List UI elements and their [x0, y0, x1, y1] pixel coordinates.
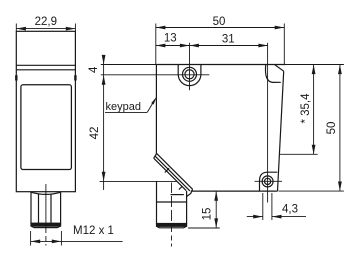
lens face band inner line 1 — [155, 156, 190, 191]
dimension 35,4 extension bottom — [280, 153, 318, 155]
front view left bottom chamfer — [154, 154, 157, 158]
dimension 4 arrow bottom (outside pointing up, shared with 42) — [102, 75, 106, 85]
front connector barrel seam — [157, 201, 187, 203]
side connector bottom cap — [31, 226, 61, 228]
svg-text:4,3: 4,3 — [282, 203, 298, 215]
dimension 35,4 arrow bottom — [312, 145, 316, 155]
dimension 50 top arrow left — [156, 26, 166, 30]
svg-text:4: 4 — [88, 66, 100, 73]
svg-text:15: 15 — [202, 208, 214, 221]
dimension M12x1 line and leader — [31, 240, 123, 242]
side view body outline — [16, 31, 75, 191]
side connector thread line right — [50, 194, 52, 224]
svg-text:13: 13 — [164, 33, 177, 45]
dimension 50 top arrow right — [275, 26, 285, 30]
svg-text:keypad: keypad — [106, 101, 141, 113]
dimension 4,3 line right segment — [272, 216, 306, 218]
front view left edge — [155, 65, 157, 155]
dimension 13 arrow left — [156, 44, 166, 48]
side connector centerline — [45, 184, 47, 246]
side connector barrel — [31, 192, 61, 223]
top-left hole vertical centerline — [189, 43, 191, 91]
dimension 15 arrow bottom — [214, 218, 218, 228]
svg-text:M12 x 1: M12 x 1 — [73, 225, 114, 237]
lens face band outer edge — [154, 158, 187, 191]
bottom-right hole inner circle — [265, 178, 271, 184]
side connector nut band — [31, 223, 61, 226]
dimension 35,4 extension top — [286, 64, 344, 66]
dimension 50 right arrow top — [338, 65, 342, 75]
dimension 4,3 arrow left — [253, 215, 263, 219]
dimension 50 right extension bottom — [279, 190, 344, 192]
side connector thread line left — [38, 194, 40, 224]
dimension 35,4 arrow top — [312, 65, 316, 75]
bottom-right hole horizontal centerline — [255, 180, 283, 182]
dimension 4,3 extension right — [271, 193, 273, 220]
side view cap seam line upper — [16, 64, 75, 66]
front view top-right inner contour — [265, 65, 280, 82]
svg-text:42: 42 — [89, 127, 101, 140]
dimension M12x1 arrow right — [52, 240, 62, 244]
side view cap seam line lower — [16, 69, 75, 71]
top-left hole boss — [178, 65, 201, 86]
dimension 4,3 arrow right — [272, 215, 282, 219]
keypad leader arrowhead — [151, 97, 157, 105]
dimension 15 line — [215, 191, 217, 228]
lens face band tick 2 — [179, 187, 182, 190]
dimension 22,9 arrow right — [66, 27, 76, 31]
dimension M12x1 arrow left — [31, 240, 41, 244]
dimension 22,9 extension left — [15, 24, 17, 32]
top-left hole inner circle — [185, 70, 194, 79]
front view top right chamfer — [275, 65, 284, 72]
dimension 31 line — [190, 45, 269, 47]
dimension 35,4 line — [313, 65, 315, 155]
top-left hole horizontal centerline and keypad line — [101, 74, 210, 76]
dimension M12x1 extension right — [60, 231, 62, 246]
dimension 31 arrow right — [258, 44, 268, 48]
lens face band tick 1 — [165, 168, 169, 172]
top-left hole outer circle — [183, 67, 197, 81]
front lower ledge line — [100, 180, 178, 182]
dimension 22,9 extension right — [74, 24, 76, 32]
dimension 50 top extension right — [283, 24, 285, 65]
dimension 4 arrow top (outside pointing down) — [102, 55, 106, 65]
keypad label underline — [105, 111, 147, 113]
lens face band end cap — [187, 189, 193, 196]
bottom-right hole boss — [260, 172, 278, 191]
svg-text:50: 50 — [213, 16, 226, 28]
dimension 15 extension top (body bottom extended) — [220, 190, 278, 192]
dimension 15 arrow top — [214, 191, 218, 201]
dimension 4,3 line left segment — [247, 216, 263, 218]
dimension 4 and 42 dimension line vertical — [103, 56, 105, 190]
dimension 22,9 arrow left — [16, 27, 26, 31]
dimension 15 extension bottom — [188, 227, 220, 229]
dimension 22,9 line — [16, 28, 75, 30]
dimension 42 arrow bottom — [102, 172, 106, 182]
front view top edge — [156, 64, 285, 66]
dimension 4,3 extension left — [262, 193, 264, 220]
svg-text:* 35,4: * 35,4 — [300, 93, 312, 124]
front neck bottom stub — [171, 194, 184, 196]
front connector bottom cap — [157, 226, 187, 228]
lens face band top edge — [157, 153, 193, 189]
bottom-right hole outer circle — [262, 176, 273, 187]
side view window frame — [21, 85, 72, 170]
dimension 4 extension top — [101, 64, 157, 66]
svg-text:50: 50 — [326, 122, 338, 135]
dimension 31 arrow left — [190, 44, 199, 48]
dimension 50 right line — [339, 65, 341, 192]
side connector bottom edge — [34, 227, 58, 229]
dimension 50 top line — [156, 27, 284, 29]
svg-text:22,9: 22,9 — [35, 16, 57, 28]
front connector right edge — [186, 191, 188, 224]
dimension 13 line — [156, 45, 190, 47]
front view right edge slanted — [278, 71, 284, 191]
dimension 13 arrow right — [180, 44, 190, 48]
front connector centerline — [171, 183, 173, 247]
bottom-right hole vertical centerline — [267, 43, 269, 203]
side connector shoulder arc — [31, 192, 60, 194]
dimension 50 right arrow bottom — [338, 182, 342, 192]
side view left edge tick — [15, 75, 17, 80]
front connector nut band — [157, 224, 187, 227]
dimension 50 top extension left (body edge up) — [155, 24, 157, 65]
front connector left edge — [156, 181, 158, 223]
svg-text:31: 31 — [222, 33, 235, 45]
dimension M12x1 extension left — [30, 231, 32, 246]
keypad leader line — [147, 100, 155, 113]
front view bottom edge — [191, 190, 278, 192]
side view right edge tick — [74, 75, 76, 80]
